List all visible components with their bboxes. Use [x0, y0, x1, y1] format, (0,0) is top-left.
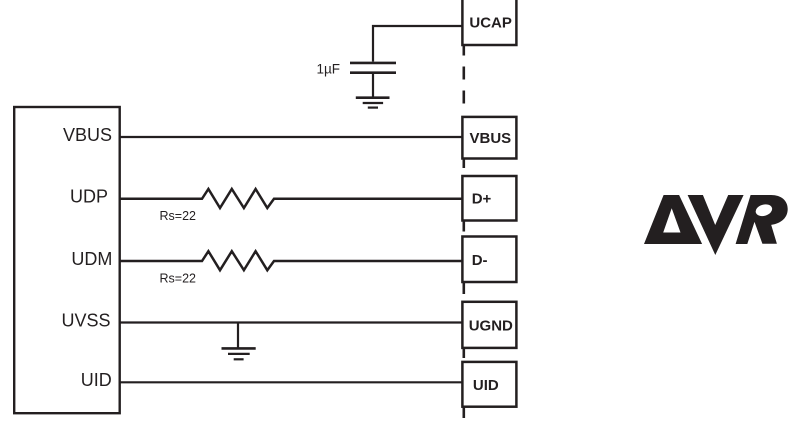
svg-text:VBUS: VBUS — [63, 125, 112, 145]
svg-text:D+: D+ — [472, 191, 492, 208]
AVR logo letter R — [736, 195, 788, 244]
capacitor C1 1uF plates — [350, 63, 396, 73]
wire ground stub on UVSS — [237, 323, 239, 349]
svg-text:Rs=22: Rs=22 — [160, 271, 197, 285]
svg-text:Rs=22: Rs=22 — [160, 209, 197, 223]
wire UDM net with resistor R2 zigzag — [120, 251, 464, 270]
AVR logo letter V — [688, 195, 744, 255]
svg-text:UID: UID — [81, 370, 112, 390]
svg-text:1µF: 1µF — [317, 61, 341, 76]
wire VBUS net — [120, 136, 464, 138]
svg-text:UGND: UGND — [469, 318, 513, 335]
ground symbol below capacitor C1 — [356, 98, 390, 108]
connector pin box UCAP — [462, 0, 516, 45]
svg-text:UCAP: UCAP — [469, 14, 512, 31]
connector pin box UGND — [462, 302, 516, 348]
connector pin box VBUS — [462, 117, 516, 159]
connector pin box UID — [462, 362, 516, 407]
connector pin box D- — [462, 237, 516, 283]
wire UDP net with resistor R1 zigzag — [120, 189, 464, 208]
wire capacitor bottom lead — [372, 74, 374, 97]
wire UCAP net to capacitor — [373, 26, 464, 62]
connector pin box D+ — [462, 176, 516, 221]
wire UVSS net — [120, 321, 464, 323]
dashed USB interface boundary line — [462, 46, 465, 418]
ground symbol on UVSS net — [222, 348, 256, 359]
svg-text:UDM: UDM — [71, 249, 112, 269]
svg-text:VBUS: VBUS — [470, 130, 512, 147]
svg-text:UVSS: UVSS — [61, 310, 110, 330]
svg-text:UDP: UDP — [70, 187, 108, 207]
svg-text:D-: D- — [472, 252, 488, 269]
wire UID net — [120, 381, 464, 383]
AVR logo letter A — [644, 195, 702, 244]
AVR logo letter R counter hole — [754, 203, 773, 218]
MCU block U1 — [14, 107, 120, 413]
svg-text:UID: UID — [473, 377, 499, 394]
